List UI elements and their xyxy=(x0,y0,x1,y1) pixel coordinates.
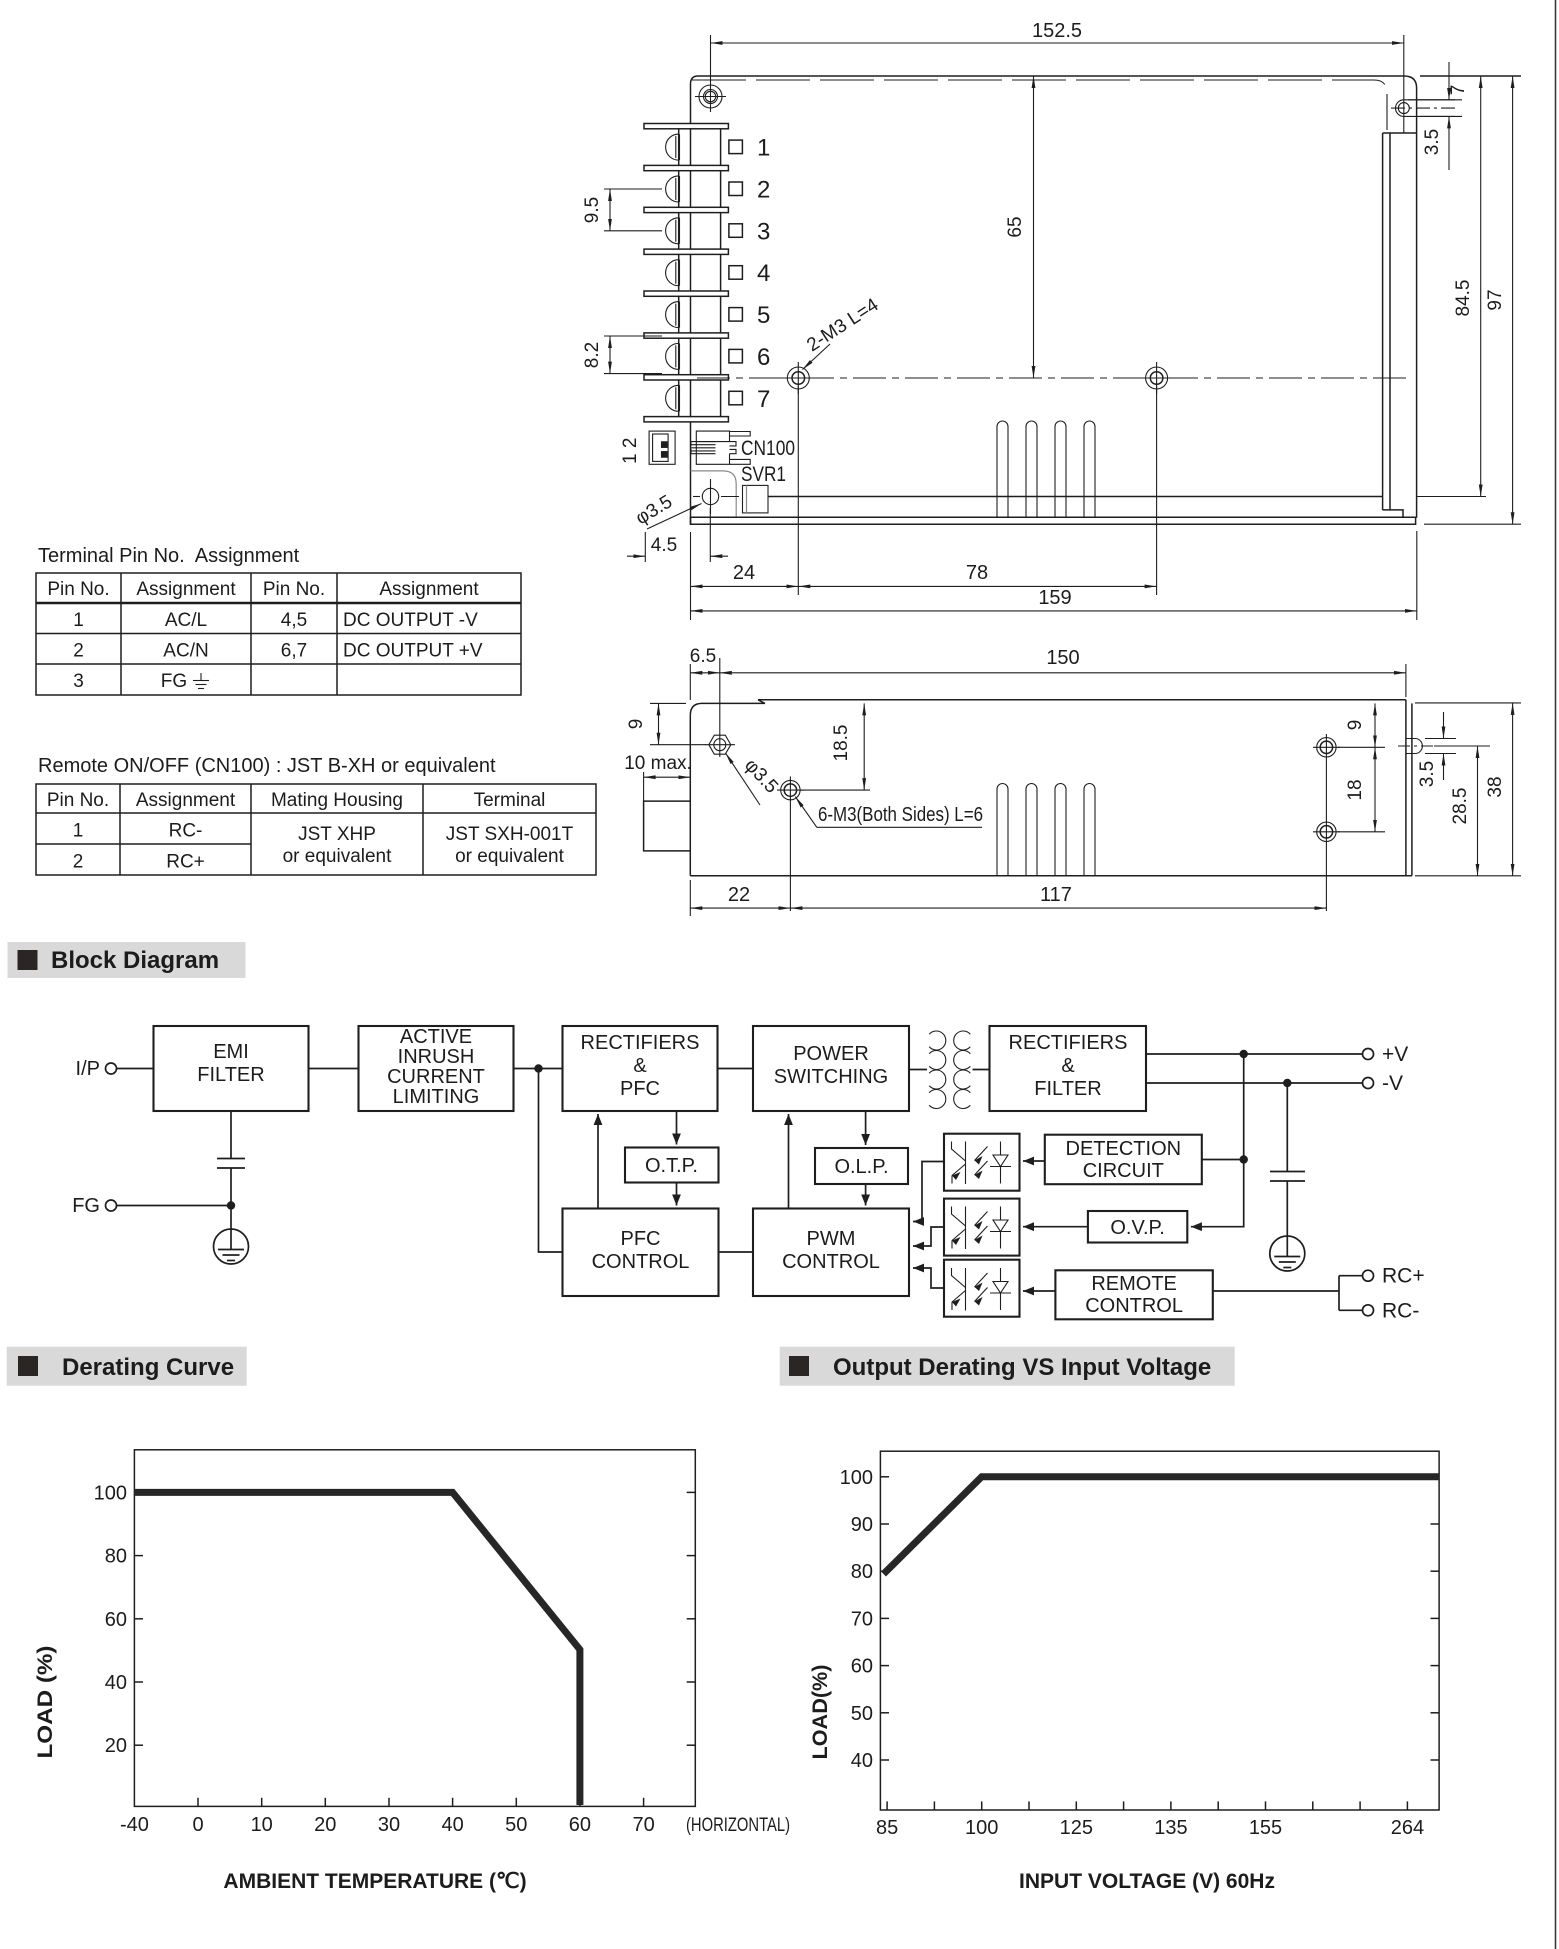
svg-text:40: 40 xyxy=(105,1672,127,1694)
svg-text:6.5: 6.5 xyxy=(690,646,716,667)
svg-text:20: 20 xyxy=(105,1735,127,1757)
svg-text:RC-: RC- xyxy=(169,821,203,842)
svg-text:Pin No.: Pin No. xyxy=(263,579,325,600)
svg-text:4,5: 4,5 xyxy=(281,610,307,631)
svg-text:SWITCHING: SWITCHING xyxy=(774,1066,888,1088)
svg-text:38: 38 xyxy=(1485,776,1506,797)
svg-text:22: 22 xyxy=(728,884,750,906)
svg-text:INRUSH: INRUSH xyxy=(398,1046,475,1068)
svg-text:Assignment: Assignment xyxy=(379,579,479,600)
svg-text:84.5: 84.5 xyxy=(1453,280,1474,317)
svg-text:6,7: 6,7 xyxy=(281,641,307,662)
svg-text:JST SXH-001T: JST SXH-001T xyxy=(446,824,574,845)
svg-text:50: 50 xyxy=(505,1814,527,1836)
svg-text:CN100: CN100 xyxy=(741,437,795,460)
svg-text:1 2: 1 2 xyxy=(620,438,641,464)
svg-text:7: 7 xyxy=(1448,85,1469,96)
svg-text:6: 6 xyxy=(757,344,770,371)
svg-text:(HORIZONTAL): (HORIZONTAL) xyxy=(686,1815,790,1836)
svg-text:RC+: RC+ xyxy=(1382,1265,1425,1288)
svg-text:or equivalent: or equivalent xyxy=(283,846,393,867)
svg-text:Terminal: Terminal xyxy=(474,790,546,811)
svg-text:20: 20 xyxy=(314,1814,336,1836)
svg-text:O.V.P.: O.V.P. xyxy=(1110,1217,1165,1239)
svg-text:Assignment: Assignment xyxy=(136,579,236,600)
svg-text:264: 264 xyxy=(1391,1817,1424,1839)
svg-text:24: 24 xyxy=(733,562,755,584)
svg-text:RC+: RC+ xyxy=(166,852,205,873)
svg-text:or equivalent: or equivalent xyxy=(455,846,565,867)
svg-text:78: 78 xyxy=(966,562,988,584)
svg-text:FG: FG xyxy=(72,1195,100,1217)
svg-text:60: 60 xyxy=(851,1656,873,1678)
svg-text:AC/L: AC/L xyxy=(165,610,207,631)
svg-text:152.5: 152.5 xyxy=(1032,20,1082,42)
svg-text:65: 65 xyxy=(1005,216,1026,237)
svg-text:97: 97 xyxy=(1485,289,1506,310)
svg-text:2: 2 xyxy=(73,641,84,662)
svg-text:I/P: I/P xyxy=(76,1058,100,1080)
svg-text:4.5: 4.5 xyxy=(651,535,677,556)
svg-text:POWER: POWER xyxy=(793,1043,869,1065)
svg-text:2: 2 xyxy=(757,177,770,204)
svg-text:9: 9 xyxy=(626,719,647,730)
svg-text:DC OUTPUT -V: DC OUTPUT -V xyxy=(343,610,478,631)
svg-text:40: 40 xyxy=(851,1750,873,1772)
svg-text:AMBIENT TEMPERATURE (℃): AMBIENT TEMPERATURE (℃) xyxy=(223,1870,526,1893)
svg-text:6-M3(Both Sides) L=6: 6-M3(Both Sides) L=6 xyxy=(818,804,983,826)
svg-text:ACTIVE: ACTIVE xyxy=(400,1026,472,1048)
svg-text:3: 3 xyxy=(757,218,770,245)
svg-text:PWM: PWM xyxy=(807,1228,856,1250)
svg-text:CURRENT: CURRENT xyxy=(387,1066,485,1088)
svg-text:RECTIFIERS: RECTIFIERS xyxy=(1009,1032,1128,1054)
svg-text:EMI: EMI xyxy=(213,1041,249,1063)
svg-text:135: 135 xyxy=(1154,1817,1187,1839)
svg-text:-V: -V xyxy=(1382,1072,1403,1095)
svg-text:1: 1 xyxy=(73,610,84,631)
svg-text:O.T.P.: O.T.P. xyxy=(645,1155,698,1177)
svg-text:Remote ON/OFF (CN100) : JST B-: Remote ON/OFF (CN100) : JST B-XH or equi… xyxy=(38,755,496,777)
svg-text:&: & xyxy=(1061,1055,1075,1077)
svg-text:Assignment: Assignment xyxy=(136,790,236,811)
svg-text:1: 1 xyxy=(757,135,770,162)
svg-text:FG: FG xyxy=(161,671,187,692)
svg-text:50: 50 xyxy=(851,1703,873,1725)
svg-text:1: 1 xyxy=(73,821,84,842)
svg-text:INPUT VOLTAGE (V) 60Hz: INPUT VOLTAGE (V) 60Hz xyxy=(1019,1870,1275,1893)
svg-text:RECTIFIERS: RECTIFIERS xyxy=(581,1032,700,1054)
svg-text:PFC: PFC xyxy=(620,1078,660,1100)
svg-text:LOAD(%): LOAD(%) xyxy=(809,1665,832,1760)
svg-text:90: 90 xyxy=(851,1514,873,1536)
svg-text:60: 60 xyxy=(569,1814,591,1836)
svg-text:100: 100 xyxy=(965,1817,998,1839)
svg-text:2-M3 L=4: 2-M3 L=4 xyxy=(803,294,883,356)
svg-text:SVR1: SVR1 xyxy=(741,463,786,486)
svg-text:φ3.5: φ3.5 xyxy=(740,755,782,798)
svg-text:85: 85 xyxy=(876,1817,898,1839)
svg-text:JST XHP: JST XHP xyxy=(298,824,376,845)
svg-text:Output Derating VS Input Volta: Output Derating VS Input Voltage xyxy=(833,1354,1211,1381)
svg-text:Block Diagram: Block Diagram xyxy=(51,947,219,974)
svg-text:Pin No.: Pin No. xyxy=(47,790,109,811)
svg-text:AC/N: AC/N xyxy=(163,641,208,662)
svg-text:CONTROL: CONTROL xyxy=(592,1251,690,1273)
svg-text:φ3.5: φ3.5 xyxy=(632,491,676,529)
svg-text:9: 9 xyxy=(1345,720,1366,731)
svg-text:5: 5 xyxy=(757,302,770,329)
svg-text:Terminal Pin No. Assignment: Terminal Pin No. Assignment xyxy=(38,545,300,567)
svg-text:100: 100 xyxy=(94,1482,127,1504)
svg-text:159: 159 xyxy=(1038,587,1071,609)
svg-text:10: 10 xyxy=(251,1814,273,1836)
svg-text:30: 30 xyxy=(378,1814,400,1836)
svg-text:LOAD (%): LOAD (%) xyxy=(34,1646,57,1759)
svg-text:125: 125 xyxy=(1060,1817,1093,1839)
svg-text:7: 7 xyxy=(757,386,770,413)
svg-text:DETECTION: DETECTION xyxy=(1066,1138,1182,1160)
svg-text:DC OUTPUT +V: DC OUTPUT +V xyxy=(343,641,483,662)
svg-text:70: 70 xyxy=(851,1608,873,1630)
svg-text:3: 3 xyxy=(73,671,84,692)
svg-text:O.L.P.: O.L.P. xyxy=(834,1156,888,1178)
svg-text:&: & xyxy=(633,1055,647,1077)
svg-text:LIMITING: LIMITING xyxy=(393,1086,480,1108)
svg-text:3.5: 3.5 xyxy=(1417,761,1438,787)
svg-text:RC-: RC- xyxy=(1382,1299,1419,1322)
svg-text:18: 18 xyxy=(1345,779,1366,800)
svg-text:Pin No.: Pin No. xyxy=(47,579,109,600)
svg-text:155: 155 xyxy=(1249,1817,1282,1839)
svg-text:Mating Housing: Mating Housing xyxy=(271,790,403,811)
svg-text:2: 2 xyxy=(73,852,84,873)
svg-text:-40: -40 xyxy=(120,1814,149,1836)
svg-text:18.5: 18.5 xyxy=(831,725,852,762)
svg-text:40: 40 xyxy=(441,1814,463,1836)
svg-text:CONTROL: CONTROL xyxy=(1085,1295,1183,1317)
svg-text:REMOTE: REMOTE xyxy=(1091,1273,1177,1295)
svg-text:10 max.: 10 max. xyxy=(624,753,692,774)
svg-text:0: 0 xyxy=(192,1814,203,1836)
svg-text:CONTROL: CONTROL xyxy=(782,1251,880,1273)
svg-text:8.2: 8.2 xyxy=(582,342,603,368)
svg-text:60: 60 xyxy=(105,1609,127,1631)
svg-text:+V: +V xyxy=(1382,1043,1408,1066)
svg-text:FILTER: FILTER xyxy=(197,1064,264,1086)
svg-text:150: 150 xyxy=(1046,647,1079,669)
svg-text:70: 70 xyxy=(632,1814,654,1836)
svg-text:80: 80 xyxy=(105,1546,127,1568)
svg-text:CIRCUIT: CIRCUIT xyxy=(1083,1160,1164,1182)
svg-text:9.5: 9.5 xyxy=(582,197,603,223)
svg-text:FILTER: FILTER xyxy=(1034,1078,1101,1100)
svg-text:PFC: PFC xyxy=(621,1228,661,1250)
svg-text:117: 117 xyxy=(1040,884,1072,906)
svg-text:100: 100 xyxy=(840,1467,873,1489)
svg-text:3.5: 3.5 xyxy=(1422,129,1443,155)
svg-text:4: 4 xyxy=(757,260,770,287)
svg-text:Derating Curve: Derating Curve xyxy=(62,1354,234,1381)
svg-text:80: 80 xyxy=(851,1561,873,1583)
svg-text:28.5: 28.5 xyxy=(1450,788,1471,825)
